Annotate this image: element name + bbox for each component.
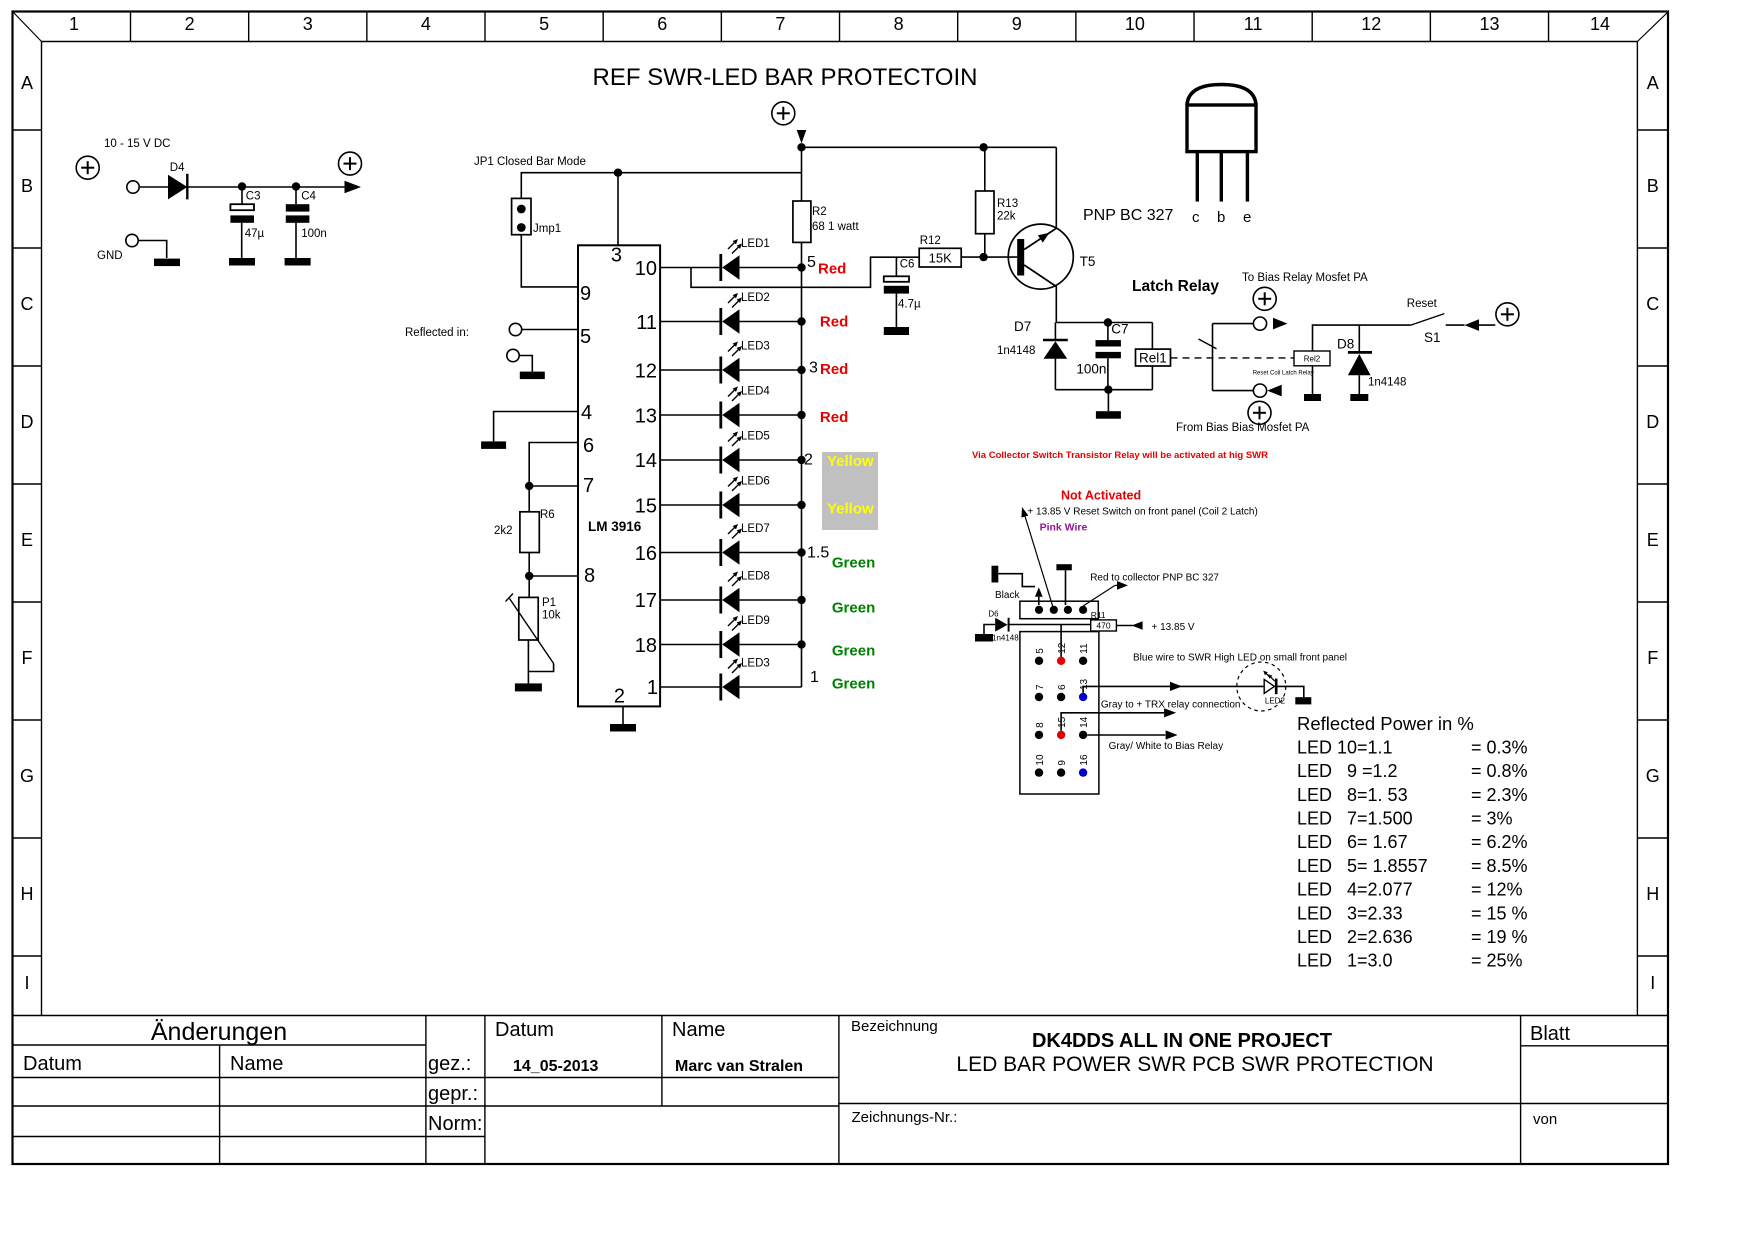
svg-text:A: A bbox=[21, 73, 33, 93]
wire LED1 to bus bbox=[740, 267, 802, 269]
transistor T5 bbox=[1008, 224, 1095, 289]
junction (C4 node) bbox=[292, 182, 300, 190]
svg-text:18: 18 bbox=[635, 635, 657, 657]
connector pin 7 bbox=[1035, 684, 1046, 701]
svg-text:Reflected in:: Reflected in: bbox=[405, 327, 469, 339]
junction (bus row 1) bbox=[797, 263, 805, 271]
svg-text:B: B bbox=[1647, 176, 1659, 196]
svg-text:C4: C4 bbox=[301, 191, 316, 203]
svg-text:16: 16 bbox=[1079, 754, 1090, 766]
connector pin 14 bbox=[1079, 716, 1090, 739]
svg-text:= 8.5%: = 8.5% bbox=[1471, 856, 1528, 876]
ground (D8) bbox=[1350, 394, 1368, 401]
pin (reflected input) bbox=[509, 323, 521, 335]
svg-text:Red: Red bbox=[820, 409, 848, 426]
svg-text:47µ: 47µ bbox=[245, 228, 265, 240]
jumper Jmp1 bbox=[512, 198, 562, 235]
svg-text:LED 6= 1.67: LED 6= 1.67 bbox=[1297, 832, 1408, 852]
wire pin 13 to LED2 bbox=[1083, 686, 1264, 692]
diode D7 bbox=[997, 319, 1068, 390]
BC327 package drawing bbox=[1187, 85, 1256, 227]
ground (GND input) bbox=[154, 259, 180, 267]
svg-text:c: c bbox=[1192, 209, 1200, 226]
svg-text:6: 6 bbox=[1057, 684, 1068, 690]
svg-text:LED 10=1.1: LED 10=1.1 bbox=[1297, 737, 1393, 757]
wire LED8 to bus bbox=[740, 599, 802, 601]
svg-text:6: 6 bbox=[583, 435, 594, 457]
svg-text:5: 5 bbox=[807, 254, 816, 271]
power terminal + (top) bbox=[772, 102, 795, 125]
table row LED 4=2.077 bbox=[1297, 880, 1523, 900]
wire pin 7 bbox=[529, 485, 578, 487]
svg-text:PNP BC 327: PNP BC 327 bbox=[1083, 207, 1174, 224]
svg-text:LED8: LED8 bbox=[741, 571, 770, 583]
table row LED 7=1.500 bbox=[1297, 809, 1513, 829]
connector pin 6 bbox=[1057, 684, 1068, 701]
svg-text:DK4DDS ALL IN ONE PROJECT: DK4DDS ALL IN ONE PROJECT bbox=[1032, 1030, 1332, 1052]
svg-text:LED 8=1. 53: LED 8=1. 53 bbox=[1297, 785, 1408, 805]
arrow (from bias) bbox=[1267, 385, 1282, 397]
connector pin 10 bbox=[1035, 754, 1046, 777]
svg-text:15K: 15K bbox=[929, 251, 952, 266]
svg-text:2k2: 2k2 bbox=[494, 525, 513, 537]
ground (C3) bbox=[229, 258, 255, 266]
svg-text:11: 11 bbox=[1244, 14, 1263, 34]
svg-text:Not Activated: Not Activated bbox=[1061, 489, 1141, 503]
connector pin 8 bbox=[1035, 722, 1046, 739]
ground (C6) bbox=[884, 327, 909, 335]
junction (pin 8 node) bbox=[525, 572, 533, 580]
IC LM 3916 bbox=[578, 245, 660, 708]
wire relay bottom rail bbox=[1055, 389, 1152, 391]
wire T5 emitter to rail bbox=[1055, 147, 1057, 229]
junction (bus row 7) bbox=[797, 548, 805, 556]
wire LED bus (vertical) bbox=[801, 268, 803, 688]
svg-text:1: 1 bbox=[69, 14, 79, 34]
wire pin to LED2 bbox=[660, 321, 721, 323]
svg-text:B: B bbox=[21, 176, 33, 196]
svg-text:Blue wire to SWR High LED on s: Blue wire to SWR High LED on small front… bbox=[1133, 653, 1347, 664]
arrow (gray/white bias) bbox=[1166, 730, 1178, 739]
svg-text:3: 3 bbox=[809, 360, 818, 377]
svg-text:4: 4 bbox=[421, 14, 431, 34]
svg-text:Änderungen: Änderungen bbox=[151, 1018, 287, 1046]
svg-text:= 25%: = 25% bbox=[1471, 951, 1523, 971]
svg-text:12: 12 bbox=[1361, 14, 1381, 34]
svg-text:12: 12 bbox=[635, 361, 657, 383]
wire LED2 to ground bbox=[1278, 686, 1304, 697]
LED LED4 bbox=[721, 386, 771, 429]
terminal bar (pin 3) bbox=[1056, 564, 1071, 570]
svg-text:5: 5 bbox=[539, 14, 549, 34]
svg-text:F: F bbox=[1647, 648, 1658, 668]
svg-text:LED 4=2.077: LED 4=2.077 bbox=[1297, 880, 1413, 900]
svg-text:gez.:: gez.: bbox=[428, 1053, 471, 1075]
svg-text:11: 11 bbox=[636, 312, 657, 334]
wire pin to LED4 bbox=[660, 414, 721, 416]
svg-text:+ 13.85 V Reset Switch on fron: + 13.85 V Reset Switch on front panel (C… bbox=[1027, 507, 1257, 518]
svg-text:2: 2 bbox=[614, 686, 625, 708]
svg-text:R2: R2 bbox=[812, 206, 827, 218]
capacitor C6 bbox=[884, 257, 921, 327]
resistor R13 bbox=[976, 147, 1019, 257]
svg-text:8: 8 bbox=[584, 565, 595, 587]
power terminal + (input) bbox=[76, 156, 99, 179]
svg-text:Name: Name bbox=[672, 1019, 725, 1041]
wire pin 2 to ground bbox=[622, 706, 624, 724]
junction (C3 node) bbox=[238, 182, 246, 190]
junction (bus row 4) bbox=[797, 411, 805, 419]
wire pin to LED5 bbox=[660, 459, 721, 461]
svg-text:= 0.3%: = 0.3% bbox=[1471, 737, 1528, 757]
svg-text:14_05-2013: 14_05-2013 bbox=[513, 1058, 599, 1075]
wire reflected input to pin 5 bbox=[522, 329, 578, 331]
arrow (black to pin 1) bbox=[1035, 587, 1043, 605]
pin (power input) bbox=[127, 181, 139, 193]
junction (bus row 3) bbox=[797, 366, 805, 374]
wire Rel2 to ground bbox=[1312, 366, 1314, 394]
svg-text:14: 14 bbox=[1590, 14, 1610, 34]
svg-text:6: 6 bbox=[657, 14, 667, 34]
connector header top row bbox=[1020, 601, 1098, 619]
junction (C7 bottom) bbox=[1104, 386, 1112, 394]
svg-text:1n4148: 1n4148 bbox=[992, 634, 1019, 643]
wire pin 4 to ground bbox=[494, 412, 578, 442]
wire Rel2 top rail bbox=[1313, 325, 1411, 351]
pin (to bias relay) bbox=[1253, 317, 1266, 330]
svg-text:R12: R12 bbox=[920, 235, 941, 247]
svg-text:68 1 watt: 68 1 watt bbox=[812, 221, 859, 233]
ground (C4) bbox=[285, 258, 311, 266]
svg-text:T5: T5 bbox=[1080, 254, 1096, 269]
wire top rail bbox=[802, 146, 1057, 148]
svg-text:LED4: LED4 bbox=[741, 386, 770, 398]
capacitor C7 bbox=[1076, 322, 1128, 390]
svg-text:R13: R13 bbox=[997, 198, 1018, 210]
connector block bbox=[1020, 632, 1099, 794]
wire S1 to arrow bbox=[1446, 324, 1465, 326]
svg-text:Yellow: Yellow bbox=[827, 501, 874, 518]
svg-text:2: 2 bbox=[804, 452, 813, 469]
svg-text:Green: Green bbox=[832, 600, 875, 617]
pin (reflected gnd) bbox=[507, 349, 519, 361]
svg-text:= 15 %: = 15 % bbox=[1471, 903, 1528, 923]
svg-text:e: e bbox=[1243, 209, 1251, 226]
svg-text:1n4148: 1n4148 bbox=[1368, 377, 1406, 389]
pin (from bias) bbox=[1253, 384, 1266, 397]
resistor R6 bbox=[494, 486, 555, 576]
svg-text:I: I bbox=[24, 973, 29, 993]
svg-text:= 6.2%: = 6.2% bbox=[1471, 832, 1528, 852]
svg-text:10: 10 bbox=[1035, 754, 1046, 766]
table row LED 1=3.0 bbox=[1297, 951, 1523, 971]
gray highlight box bbox=[822, 452, 878, 530]
table row LED 3=2.33 bbox=[1297, 903, 1528, 923]
wire R2 to bus bbox=[801, 242, 803, 267]
wire pin to LED3 bbox=[660, 369, 721, 371]
wire pin 4 to red arrow bbox=[1083, 581, 1128, 606]
table row LED 5= 1.8557 bbox=[1297, 856, 1528, 876]
relay contact (Rel1 switch) bbox=[1199, 324, 1217, 391]
svg-text:H: H bbox=[21, 884, 34, 904]
svg-text:Datum: Datum bbox=[23, 1053, 82, 1075]
connector pin 15 bbox=[1057, 716, 1068, 739]
table row LED 6= 1.67 bbox=[1297, 832, 1528, 852]
svg-text:8: 8 bbox=[1035, 722, 1046, 728]
junction (bus row 8) bbox=[797, 596, 805, 604]
svg-text:To Bias Relay Mosfet PA: To Bias Relay Mosfet PA bbox=[1242, 272, 1368, 284]
pin GND bbox=[126, 234, 138, 246]
resistor R11 bbox=[1091, 610, 1117, 631]
svg-text:Reset: Reset bbox=[1407, 298, 1438, 310]
svg-text:LED BAR POWER SWR PCB SWR PROT: LED BAR POWER SWR PCB SWR PROTECTION bbox=[956, 1053, 1433, 1076]
svg-text:LED1: LED1 bbox=[741, 238, 770, 250]
wire D6 to R11 bbox=[1009, 624, 1091, 626]
svg-text:D4: D4 bbox=[170, 162, 185, 174]
junction (top rail) bbox=[797, 143, 805, 151]
svg-text:S1: S1 bbox=[1424, 330, 1441, 345]
power terminal + (reset) bbox=[1496, 303, 1519, 326]
svg-text:12: 12 bbox=[1057, 642, 1068, 654]
wire LED2 to bus bbox=[740, 321, 802, 323]
svg-text:14: 14 bbox=[635, 450, 657, 472]
relay coil Rel1 bbox=[1136, 323, 1171, 390]
svg-text:LED 7=1.500: LED 7=1.500 bbox=[1297, 809, 1413, 829]
svg-text:= 3%: = 3% bbox=[1471, 809, 1513, 829]
svg-text:13: 13 bbox=[1079, 678, 1090, 690]
ground (relay) bbox=[1096, 390, 1121, 419]
junction (bus row 9) bbox=[797, 640, 805, 648]
svg-text:16: 16 bbox=[635, 543, 657, 565]
power terminal + (from bias) bbox=[1248, 401, 1271, 424]
wire P1 to ground bbox=[527, 640, 529, 683]
svg-text:10: 10 bbox=[1125, 14, 1145, 34]
connector pin 9 bbox=[1057, 760, 1068, 777]
resistor R12 bbox=[919, 235, 961, 267]
svg-text:LM 3916: LM 3916 bbox=[588, 519, 642, 534]
svg-text:gepr.:: gepr.: bbox=[428, 1083, 478, 1105]
svg-text:LED3: LED3 bbox=[741, 341, 770, 353]
wire R11 to +13.85V arrow bbox=[1116, 625, 1133, 627]
junction (C7 top) bbox=[1104, 318, 1112, 326]
ground (Rel2) bbox=[1304, 394, 1321, 401]
svg-text:100n: 100n bbox=[301, 228, 327, 240]
wire GND to ground bbox=[138, 241, 167, 259]
wire T5 collector down bbox=[1055, 286, 1057, 323]
svg-text:LED5: LED5 bbox=[741, 431, 770, 443]
table row LED 10=1.1 bbox=[1297, 737, 1528, 757]
svg-text:REF SWR-LED BAR PROTECTOIN: REF SWR-LED BAR PROTECTOIN bbox=[593, 64, 978, 91]
wire pin to LED8 bbox=[660, 599, 721, 601]
svg-text:Blatt: Blatt bbox=[1530, 1023, 1570, 1045]
svg-text:15: 15 bbox=[1057, 716, 1068, 728]
svg-text:9: 9 bbox=[1012, 14, 1022, 34]
svg-text:LED 1=3.0: LED 1=3.0 bbox=[1297, 951, 1393, 971]
power terminal + (after D4) bbox=[339, 152, 362, 175]
arrow (to bias relay) bbox=[1273, 318, 1288, 330]
svg-text:100n: 100n bbox=[1076, 362, 1106, 377]
table row LED 8=1. 53 bbox=[1297, 785, 1528, 805]
svg-text:Yellow: Yellow bbox=[827, 453, 874, 470]
svg-text:1: 1 bbox=[647, 677, 658, 699]
arrow to +V rail bbox=[345, 181, 362, 193]
svg-text:LED2: LED2 bbox=[741, 292, 770, 304]
junction (bus row 2) bbox=[797, 317, 805, 325]
wire R12 to T5 base bbox=[961, 256, 1017, 258]
LED LED8 bbox=[721, 571, 770, 614]
svg-text:C7: C7 bbox=[1111, 322, 1128, 337]
wire supply bus upper bbox=[801, 144, 803, 202]
arrow (reset +) bbox=[1465, 319, 1480, 331]
svg-text:C6: C6 bbox=[900, 259, 915, 271]
svg-text:13: 13 bbox=[1479, 14, 1499, 34]
LED LED9 bbox=[721, 615, 770, 658]
svg-text:Black: Black bbox=[995, 590, 1020, 601]
wire collector rail bbox=[1056, 322, 1152, 324]
wire LED6 to bus bbox=[740, 504, 802, 506]
svg-text:Rel1: Rel1 bbox=[1139, 351, 1167, 366]
svg-text:Name: Name bbox=[230, 1053, 283, 1075]
ground (LED2) bbox=[1295, 697, 1311, 704]
svg-text:Datum: Datum bbox=[495, 1019, 554, 1041]
svg-text:Pink Wire: Pink Wire bbox=[1040, 522, 1088, 534]
svg-text:= 0.8%: = 0.8% bbox=[1471, 761, 1528, 781]
svg-text:15: 15 bbox=[635, 496, 657, 518]
LED LED2 bbox=[721, 292, 770, 335]
arrow (blue wire) bbox=[1170, 682, 1182, 691]
diode D8 bbox=[1337, 325, 1406, 394]
svg-text:G: G bbox=[20, 766, 34, 786]
connector pin 12 bbox=[1057, 642, 1068, 665]
svg-text:von: von bbox=[1533, 1111, 1557, 1128]
svg-text:P1: P1 bbox=[542, 597, 556, 609]
svg-text:4.7µ: 4.7µ bbox=[898, 299, 921, 311]
svg-text:b: b bbox=[1217, 209, 1225, 226]
svg-text:14: 14 bbox=[1079, 716, 1090, 728]
svg-text:From Bias Bias Mosfet PA: From Bias Bias Mosfet PA bbox=[1176, 422, 1310, 434]
svg-text:Gray to + TRX relay connection: Gray to + TRX relay connection bbox=[1101, 700, 1241, 711]
wire LED7 to bus bbox=[740, 552, 802, 554]
ground (D6) bbox=[975, 625, 995, 642]
wire P1 wiper to bottom bbox=[528, 664, 553, 672]
power terminal + (to bias relay) bbox=[1253, 287, 1276, 310]
wire Rel1 to contact (dashed) bbox=[1171, 357, 1295, 359]
wire pin 10 node to C6/R12 bbox=[691, 257, 919, 287]
svg-text:LED 2=2.636: LED 2=2.636 bbox=[1297, 927, 1413, 947]
svg-text:1n4148: 1n4148 bbox=[997, 345, 1035, 357]
svg-text:LED 9 =1.2: LED 9 =1.2 bbox=[1297, 761, 1398, 781]
svg-text:1.5: 1.5 bbox=[807, 545, 829, 562]
arrow (supply down) bbox=[797, 130, 807, 144]
svg-text:9: 9 bbox=[580, 283, 591, 305]
svg-text:Gray/ White to Bias Relay: Gray/ White to Bias Relay bbox=[1109, 741, 1223, 752]
potentiometer P1 bbox=[506, 576, 561, 664]
junction (bus row 6) bbox=[797, 501, 805, 509]
svg-text:D: D bbox=[1646, 412, 1659, 432]
svg-text:Bezeichnung: Bezeichnung bbox=[851, 1018, 938, 1035]
wire LED3 to bus bbox=[740, 369, 802, 371]
wire rail to pin 3 bbox=[617, 173, 619, 246]
svg-text:17: 17 bbox=[635, 590, 657, 612]
svg-text:C: C bbox=[21, 294, 34, 314]
svg-text:470: 470 bbox=[1096, 621, 1110, 631]
svg-text:22k: 22k bbox=[997, 211, 1016, 223]
wire to pin 12 bbox=[1060, 625, 1062, 661]
arrow (gray TRX) bbox=[1164, 708, 1176, 717]
svg-text:Reflected Power in %: Reflected Power in % bbox=[1297, 713, 1474, 734]
connector pin 16 bbox=[1079, 754, 1090, 777]
svg-text:R6: R6 bbox=[540, 509, 555, 521]
svg-text:= 2.3%: = 2.3% bbox=[1471, 785, 1528, 805]
svg-text:LED9: LED9 bbox=[741, 615, 770, 627]
wire pin 8 bbox=[529, 575, 578, 577]
wire black terminal to pin 1 bbox=[998, 574, 1035, 587]
wire pink (to pin 2 of header) bbox=[1021, 507, 1053, 609]
svg-text:H: H bbox=[1646, 884, 1659, 904]
svg-text:11: 11 bbox=[1079, 643, 1090, 654]
wire pin to LED6 bbox=[660, 504, 721, 506]
svg-text:10 - 15 V DC: 10 - 15 V DC bbox=[104, 138, 170, 150]
wire pin to LED9 bbox=[660, 644, 721, 646]
svg-text:Reset Coil Latch Relay: Reset Coil Latch Relay bbox=[1253, 371, 1314, 377]
wire arrow to + bbox=[1479, 324, 1495, 326]
wire contact to pin (upper) bbox=[1213, 323, 1254, 325]
svg-text:F: F bbox=[22, 648, 33, 668]
ground (P1) bbox=[515, 683, 542, 691]
LED LED2 (front panel) bbox=[1237, 662, 1286, 711]
svg-text:Red: Red bbox=[820, 314, 848, 331]
svg-text:Norm:: Norm: bbox=[428, 1113, 482, 1135]
svg-text:R11: R11 bbox=[1091, 610, 1106, 620]
connector pin 5 bbox=[1035, 648, 1046, 665]
connector pin 11 bbox=[1079, 643, 1090, 665]
svg-text:LED3: LED3 bbox=[741, 658, 770, 670]
svg-text:GND: GND bbox=[97, 250, 123, 262]
svg-text:9: 9 bbox=[1057, 760, 1068, 766]
svg-text:2: 2 bbox=[185, 14, 195, 34]
svg-text:Green: Green bbox=[832, 555, 875, 572]
svg-text:5: 5 bbox=[1035, 648, 1046, 654]
junction (pin 7 node) bbox=[525, 482, 533, 490]
svg-text:4: 4 bbox=[581, 402, 592, 424]
wire reflected gnd bbox=[519, 356, 532, 372]
svg-text:Zeichnungs-Nr.:: Zeichnungs-Nr.: bbox=[852, 1109, 958, 1126]
svg-text:D6: D6 bbox=[988, 610, 999, 619]
svg-text:Green: Green bbox=[832, 676, 875, 693]
switch S1 bbox=[1407, 298, 1445, 345]
svg-text:Red: Red bbox=[818, 261, 846, 278]
svg-text:3: 3 bbox=[611, 245, 622, 267]
capacitor C4 bbox=[286, 187, 327, 258]
svg-text:Latch Relay: Latch Relay bbox=[1132, 278, 1219, 295]
table row LED 2=2.636 bbox=[1297, 927, 1528, 947]
svg-text:1: 1 bbox=[810, 669, 819, 686]
wire D4 to +V arrow bbox=[187, 186, 345, 188]
diode D6 bbox=[988, 610, 1019, 643]
connector pin 13 bbox=[1079, 678, 1090, 701]
relay coil Rel2 bbox=[1294, 351, 1330, 366]
LED LED6 bbox=[721, 476, 770, 519]
svg-text:+ 13.85 V: + 13.85 V bbox=[1152, 622, 1195, 633]
svg-text:E: E bbox=[21, 530, 33, 550]
LED LED5 bbox=[721, 431, 770, 474]
svg-text:D8: D8 bbox=[1337, 337, 1354, 352]
wire Jmp1 top to supply rail bbox=[521, 173, 801, 199]
svg-text:Marc van Stralen: Marc van Stralen bbox=[675, 1058, 803, 1075]
wire LED3 to bus bbox=[740, 686, 802, 688]
LED LED1 bbox=[721, 238, 770, 281]
svg-text:LED7: LED7 bbox=[741, 523, 770, 535]
